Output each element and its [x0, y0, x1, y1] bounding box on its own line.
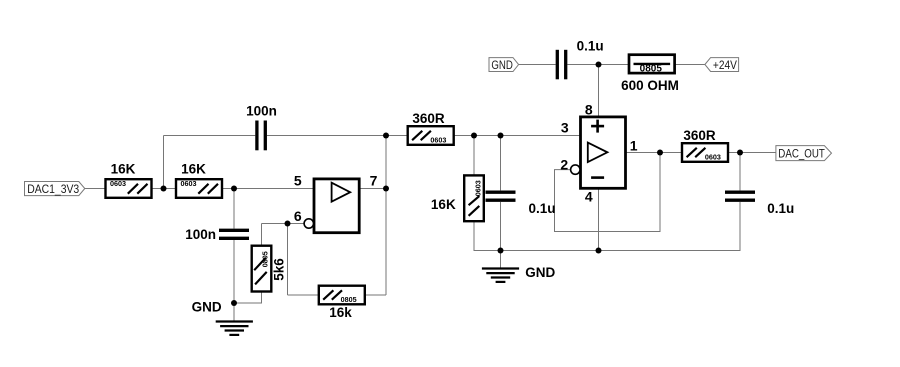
- svg-text:0603: 0603: [473, 180, 482, 196]
- wire: R2 to op-amp pin 5 through node B: [222, 188, 314, 190]
- svg-text:5k6: 5k6: [272, 258, 287, 281]
- svg-text:4: 4: [585, 189, 593, 205]
- capacitor 0.1u (output filter): [725, 192, 794, 216]
- svg-text:0.1u: 0.1u: [767, 201, 794, 216]
- wire: node E vertical down to 16k feedback row: [287, 224, 289, 296]
- wire: output node vertical (pin7 down to 16k feedback row): [385, 136, 387, 296]
- svg-text:360R: 360R: [683, 128, 716, 143]
- wire: op-amp2 pin 4 down to ground rail: [598, 188, 600, 250]
- wire: node E leg to 16k feedback resistor: [288, 294, 319, 296]
- resistor 16K (vertical, 0603): [431, 175, 484, 221]
- svg-text:7: 7: [370, 173, 378, 189]
- ground symbol (right): [482, 269, 519, 282]
- junction node rail-1: [498, 248, 504, 254]
- net flag DAC1_3V3: [25, 182, 85, 196]
- svg-text:0805: 0805: [341, 295, 357, 304]
- svg-text:+24V: +24V: [713, 58, 737, 72]
- junction node pin7 output: [383, 186, 389, 192]
- wire: node I down to 0.1u cap C4: [739, 153, 741, 191]
- svg-text:0805: 0805: [640, 64, 663, 75]
- ferrite bead 600 OHM (0805): [621, 55, 679, 93]
- op-amp (right half, pins 1/2/3/4/8): [571, 117, 626, 188]
- wire: top feedback, 100n cap to output node vertical: [267, 135, 386, 137]
- junction node top (feedback tee): [383, 133, 389, 139]
- capacitor 0.1u (pin 3 to ground rail): [486, 192, 556, 216]
- svg-text:6: 6: [294, 208, 302, 224]
- junction node H (pin 1 output): [657, 150, 663, 156]
- wire: 0.1u cap C4 bottom to ground rail corner: [739, 202, 741, 251]
- wire: ground rail node stem to ground symbol 2: [500, 251, 502, 269]
- wire: node D vertical down to 0.1u cap C3: [500, 136, 502, 191]
- svg-text:0603: 0603: [181, 179, 197, 188]
- svg-text:GND: GND: [525, 265, 555, 280]
- svg-text:0603: 0603: [430, 136, 446, 145]
- resistor 16k (feedback, 0805): [319, 286, 365, 320]
- wire: op-amp2 pin 1 output to node H: [626, 152, 683, 154]
- wire: 360R#2 to node I and DAC_OUT flag: [728, 152, 776, 154]
- svg-text:600 OHM: 600 OHM: [621, 78, 679, 93]
- wire: node C vertical down to 16K vertical resistor: [473, 136, 475, 176]
- svg-text:3: 3: [561, 120, 569, 136]
- wire: corner down to 5k6 resistor top: [261, 224, 263, 246]
- wire: 100n cap C2 to ground node F: [233, 240, 235, 303]
- svg-text:0.1u: 0.1u: [577, 39, 604, 54]
- svg-text:16k: 16k: [329, 305, 352, 320]
- wire: op-amp2 pin 8 up to supply node G: [598, 65, 600, 117]
- resistor 5k6 (vertical, 0805): [252, 246, 287, 292]
- capacitor 100n (node B to ground): [185, 227, 249, 242]
- resistor 16K (left, 0603): [106, 161, 152, 197]
- svg-text:GND: GND: [491, 58, 513, 72]
- svg-text:1: 1: [630, 138, 638, 154]
- wire: 16k feedback resistor to output vertical: [365, 294, 386, 296]
- junction node C: [471, 133, 477, 139]
- wire: R1 to R2 through node A: [152, 188, 177, 190]
- wire: 5k6 bottom down and left to ground node F: [234, 292, 262, 304]
- junction node I (DAC_OUT): [737, 150, 743, 156]
- wire: 600 OHM bead to +24V flag: [675, 64, 705, 66]
- wire: pin 6 bubble to node E and left to 5k6 top corner: [262, 223, 305, 225]
- svg-text:5: 5: [294, 173, 302, 189]
- svg-text:16K: 16K: [181, 161, 206, 176]
- svg-text:360R: 360R: [412, 111, 445, 126]
- op-amp (left half, pins 5/6/7): [304, 179, 359, 233]
- wire: DAC1_3V3 flag to resistor 16K R1: [85, 188, 106, 190]
- net flag +24V: [705, 58, 739, 72]
- svg-text:GND: GND: [192, 300, 222, 315]
- svg-text:16K: 16K: [431, 197, 456, 212]
- wire: GND flag to 0.1u cap C1: [519, 64, 556, 66]
- junction node A: [161, 186, 167, 192]
- wire: node F stem to ground symbol: [233, 303, 235, 322]
- svg-text:0.1u: 0.1u: [529, 201, 556, 216]
- svg-text:0603: 0603: [110, 179, 126, 188]
- junction node F (left ground): [231, 300, 237, 306]
- svg-text:0603: 0603: [705, 153, 721, 162]
- junction node rail-2: [596, 248, 602, 254]
- resistor 360R (second, 0603): [682, 128, 728, 162]
- resistor 16K (second, 0603): [176, 161, 222, 197]
- wire: ground rail: [474, 250, 741, 252]
- resistor 360R (first, 0603): [408, 111, 454, 145]
- junction node G (supply): [596, 62, 602, 68]
- net flag GND (supply): [489, 58, 519, 72]
- capacitor 100n (top feedback): [246, 104, 277, 151]
- wire: op-amp2 pin 2 feedback loop: [555, 153, 661, 232]
- wire: top node to 360R resistor: [386, 135, 408, 137]
- wire: op-amp1 pin 7 output to vertical node: [359, 188, 386, 190]
- wire: node A vertical up to feedback top wire: [163, 136, 165, 189]
- svg-text:100n: 100n: [185, 227, 216, 242]
- wire: 16K vertical resistor bottom to ground rail: [473, 221, 475, 251]
- junction node B: [231, 186, 237, 192]
- wire: top feedback, left segment to 100n cap: [164, 135, 256, 137]
- capacitor 0.1u (supply decoupling): [557, 39, 603, 80]
- svg-text:16K: 16K: [111, 161, 136, 176]
- svg-text:2: 2: [560, 156, 568, 172]
- wire: node B vertical down to 100n cap C2: [233, 189, 235, 229]
- svg-text:100n: 100n: [246, 104, 277, 119]
- wire: 0.1u cap C3 bottom to ground rail: [500, 202, 502, 251]
- svg-text:DAC1_3V3: DAC1_3V3: [27, 182, 79, 196]
- wire: 0.1u cap C1 to node G and 600 OHM bead: [567, 64, 629, 66]
- wire: 360R to op-amp2 pin 3 through nodes C and D: [454, 135, 581, 137]
- ground symbol (left): [216, 322, 253, 335]
- net flag DAC_OUT: [776, 146, 832, 161]
- junction node E (pin 6): [285, 221, 291, 227]
- svg-text:DAC_OUT: DAC_OUT: [778, 146, 825, 160]
- svg-text:8: 8: [585, 102, 593, 118]
- junction node D: [498, 133, 504, 139]
